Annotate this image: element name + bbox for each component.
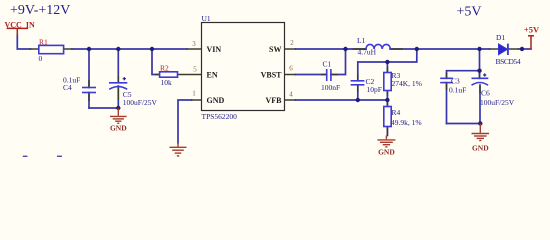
svg-text:5: 5 (193, 65, 197, 73)
svg-text:0.1uF: 0.1uF (449, 85, 466, 94)
svg-text:10k: 10k (161, 78, 173, 87)
svg-text:6: 6 (289, 64, 293, 72)
svg-text:VIN: VIN (207, 45, 222, 54)
svg-text:GND: GND (472, 143, 489, 152)
svg-text:C3: C3 (451, 76, 460, 85)
svg-text:R4: R4 (392, 108, 401, 117)
svg-text:C4: C4 (63, 83, 72, 92)
svg-text:4.7uH: 4.7uH (358, 48, 377, 57)
svg-text:VBST: VBST (261, 71, 283, 80)
svg-text:R1: R1 (39, 37, 48, 46)
svg-text:GND: GND (207, 96, 225, 105)
svg-text:C1: C1 (323, 60, 332, 69)
svg-text:GND: GND (378, 148, 395, 157)
svg-text:C6: C6 (481, 88, 490, 97)
svg-text:TPS562200: TPS562200 (202, 112, 238, 121)
svg-text:R2: R2 (160, 64, 169, 73)
svg-text:3: 3 (192, 40, 196, 48)
svg-text:100nF: 100nF (321, 83, 340, 92)
svg-text:49.9k, 1%: 49.9k, 1% (391, 118, 422, 127)
svg-text:+9V-+12V: +9V-+12V (10, 3, 70, 18)
svg-text:100uF/25V: 100uF/25V (480, 98, 515, 107)
svg-text:2: 2 (290, 39, 294, 47)
svg-text:10pF: 10pF (367, 85, 382, 94)
svg-text:EN: EN (207, 71, 218, 80)
svg-text:BSCD54: BSCD54 (496, 57, 521, 66)
svg-text:D1: D1 (496, 33, 505, 42)
svg-text:SW: SW (269, 45, 281, 54)
svg-text:+5V: +5V (524, 25, 540, 35)
svg-text:U1: U1 (202, 14, 211, 23)
svg-text:GND: GND (110, 123, 127, 132)
svg-text:4: 4 (289, 90, 293, 98)
svg-text:L1: L1 (357, 36, 366, 45)
svg-text:274K, 1%: 274K, 1% (392, 79, 422, 88)
svg-text:1: 1 (192, 90, 196, 98)
svg-text:100uF/25V: 100uF/25V (123, 98, 158, 107)
svg-text:0: 0 (39, 54, 43, 63)
svg-text:VFB: VFB (266, 96, 283, 105)
svg-text:VCC_IN: VCC_IN (5, 20, 35, 29)
svg-text:+5V: +5V (457, 5, 482, 20)
